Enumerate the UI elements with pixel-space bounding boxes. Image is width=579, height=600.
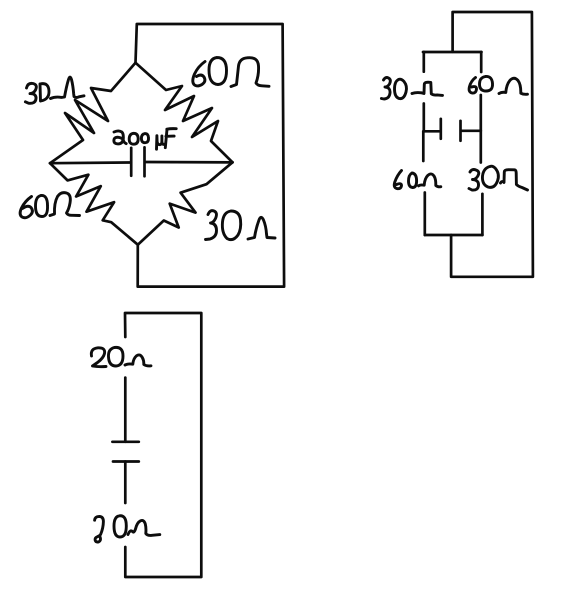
capacitor C4 top plate [112,440,138,443]
value label 200uF [114,129,176,150]
capacitor C1 200uF right plate [143,147,146,176]
capacitor C2 left branch lead [423,130,439,133]
wire: right circuit outer loop [451,12,533,277]
value label 20ohm (bottom circuit lower) [95,516,160,542]
wire: bridge center right segment [146,161,233,164]
wire: left branch upper segment [422,52,425,72]
resistor R3 60ohm (bridge bottom-left arm) [50,163,138,245]
capacitor C2 left branch plate [439,119,442,139]
capacitor C4 bottom plate [113,460,139,463]
value label 60ohm (right circuit top-right) [469,76,527,94]
wire: left branch lower segment [423,193,426,236]
wire: inner top bar [423,51,482,54]
wire: left branch below cap [422,131,425,161]
capacitor C1 200uF left plate [130,148,133,176]
value label 30ohm (right circuit bottom-right) [469,166,528,190]
value label 30ohm (right circuit top-left) [381,78,442,99]
value label 20ohm (bottom circuit upper) [91,347,151,366]
value label 30ohm (bridge top-left) [25,77,84,103]
capacitor C3 right branch plate [459,121,462,141]
wire: right branch lower segment [481,194,484,235]
wire: left branch mid segment [422,104,425,132]
capacitor C3 right branch lead [461,129,481,132]
wire: left side lower-mid segment [124,462,127,504]
value label 30ohm (bridge bottom-right) [206,211,276,240]
value label 60ohm (right circuit bottom-left) [394,171,441,189]
wire: right branch upper segment [480,52,483,72]
wire: inner bottom bar [425,234,483,237]
value label 60ohm (bridge bottom-left) [20,193,79,218]
wire: left side upper-mid segment [124,378,127,442]
resistor R2 60ohm (bridge top-right arm) [136,63,233,163]
wire: right branch mid segment [479,95,482,163]
wire: bridge center left segment [50,161,131,164]
resistor R1 30ohm (bridge top-left arm) [50,63,136,163]
wire: bottom circuit outer loop [125,313,201,577]
wire: bridge outer loop (top stub, top, right, bottom, bottom stub) [136,24,285,287]
resistor R4 30ohm (bridge bottom-right arm) [138,162,233,244]
value label 60ohm (bridge top-right) [193,58,269,87]
